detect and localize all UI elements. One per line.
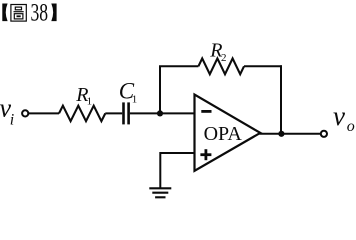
svg-text:38: 38 — [31, 0, 49, 27]
svg-text:OPA: OPA — [204, 123, 243, 145]
wire output — [260, 133, 321, 135]
title text 38 — [31, 0, 49, 27]
ground — [149, 188, 171, 197]
op-amp label OPA — [204, 123, 243, 145]
node B junction dot — [278, 131, 284, 137]
title character 圖 — [11, 5, 26, 22]
svg-text:1: 1 — [87, 96, 93, 108]
wire feedback top left — [159, 65, 198, 67]
op-amp plus pin — [200, 149, 211, 160]
label vo — [333, 101, 355, 135]
title bracket right 】 — [51, 4, 56, 22]
input terminal — [22, 110, 28, 116]
resistor R2 — [198, 58, 244, 74]
op-amp minus pin — [201, 110, 211, 113]
svg-text:i: i — [10, 111, 14, 128]
wire input to R1 — [28, 112, 59, 114]
wire plus input — [160, 153, 194, 188]
wire feedback right vertical — [280, 65, 282, 134]
resistor R1 — [59, 106, 105, 122]
svg-text:o: o — [347, 118, 355, 135]
label vi — [0, 94, 14, 129]
title bracket left 【 — [2, 4, 7, 22]
node A junction dot — [157, 110, 163, 116]
label C1 — [119, 78, 138, 105]
svg-text:2: 2 — [221, 52, 227, 64]
wire C1 to op-amp — [130, 112, 195, 114]
op-amp OPA — [195, 95, 261, 171]
wire feedback left vertical — [159, 66, 161, 113]
label R2 — [209, 40, 226, 64]
wire R1 to C1 — [105, 112, 122, 114]
label R1 — [75, 84, 92, 108]
capacitor C1 — [124, 102, 129, 124]
svg-text:1: 1 — [132, 94, 138, 106]
svg-text:v: v — [333, 101, 345, 131]
output terminal — [321, 131, 327, 137]
wire feedback top right — [244, 65, 282, 67]
